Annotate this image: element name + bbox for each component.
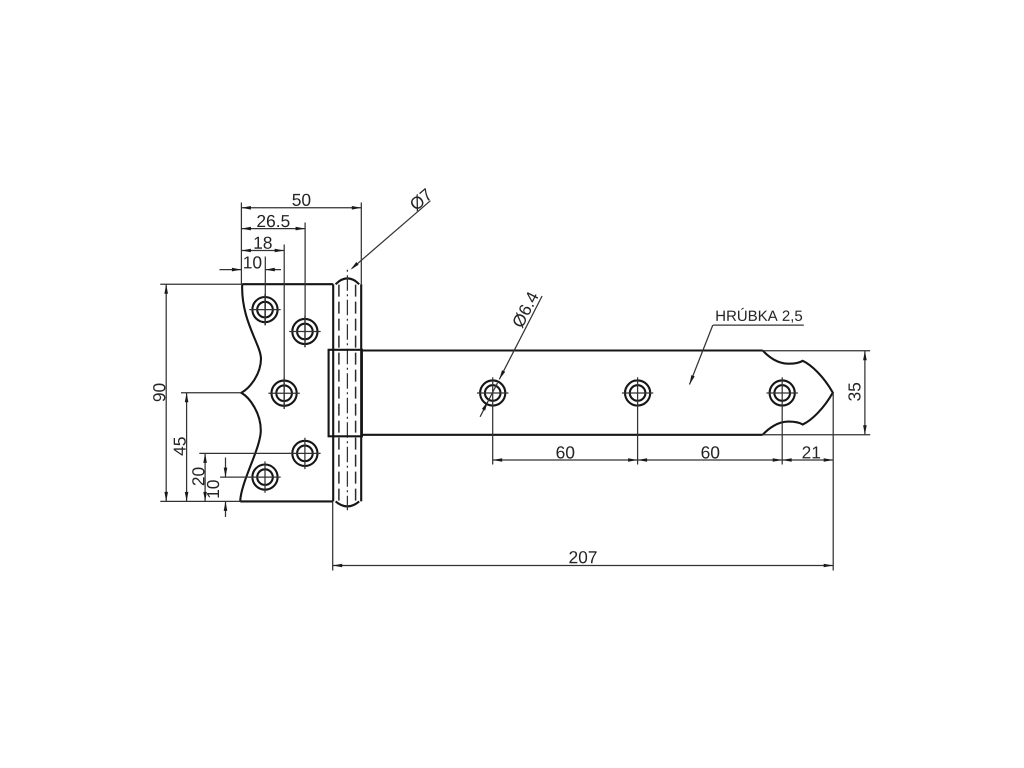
dimension 60 first [493, 458, 638, 462]
extension line hole B column [304, 223, 306, 348]
dimension 21 [782, 458, 833, 462]
extension line plate bottom row [160, 500, 240, 502]
extension line plate left top column [240, 203, 242, 285]
extension line plate top row [160, 283, 242, 285]
leader diameter 6.4 [480, 296, 542, 417]
text 20 [192, 468, 204, 486]
dimension 20 [203, 453, 207, 501]
extension line strap tip column [832, 394, 834, 571]
dimension 10 top [220, 268, 282, 272]
barrel center line [346, 270, 348, 510]
text 35 [848, 383, 860, 401]
dimension 45 [185, 393, 189, 502]
text 50 [292, 194, 310, 206]
dimension 60 second [638, 458, 783, 462]
leader diameter 7 [351, 201, 431, 270]
dimension 90 [164, 284, 168, 501]
text 26.5 [257, 215, 289, 227]
extension line strap top right row [763, 350, 871, 352]
hole A [249, 294, 280, 325]
extension line hole A column [264, 257, 266, 326]
left leaf plate outline [240, 284, 333, 501]
text 10 left [207, 480, 219, 497]
leader thickness label [690, 325, 804, 384]
text 10 top [244, 256, 261, 268]
text 60 first [557, 446, 575, 458]
extension line barrel right column [360, 203, 362, 285]
text 60 second [702, 446, 720, 458]
hinge barrel [333, 278, 361, 506]
text HRUBKA 2,5 [716, 308, 802, 323]
extension line barrel left bottom column [332, 503, 334, 571]
strap hole 3 [767, 380, 798, 405]
hole E [249, 461, 280, 492]
strap decorative end [763, 351, 833, 435]
text 18 [255, 237, 272, 249]
dimension 50 [241, 206, 361, 210]
extension line hole D row [199, 452, 290, 454]
extension line hole C column [283, 245, 285, 409]
strap hole 2 [622, 380, 653, 405]
knuckle of strap leaf [329, 350, 362, 437]
dimension 26.5 [241, 227, 305, 231]
text 90 [153, 384, 165, 402]
hole D [289, 438, 320, 469]
dimension 35 [863, 351, 867, 435]
extension line hole E row [220, 476, 250, 478]
hole B [289, 316, 320, 347]
hidden pin line left [338, 285, 340, 502]
strap hole 1 [477, 380, 508, 405]
extension line strap hole 3 column [781, 377, 783, 464]
dimension 18 [241, 249, 284, 253]
extension line strap hole 1 column [492, 377, 494, 464]
text 45 [174, 437, 186, 455]
dimension 10 left [224, 458, 228, 518]
dimension 207 [333, 564, 834, 568]
text 207 [569, 551, 596, 563]
hidden pin line right [355, 285, 357, 502]
extension line cusp row [181, 392, 242, 394]
text dia 7 [411, 188, 430, 212]
hole C [268, 378, 299, 409]
text dia 6.4 [513, 292, 538, 329]
extension line strap hole 2 column [637, 377, 639, 464]
text 21 [803, 446, 821, 458]
strap leaf outline [362, 351, 763, 435]
extension line strap bottom right row [763, 434, 871, 436]
